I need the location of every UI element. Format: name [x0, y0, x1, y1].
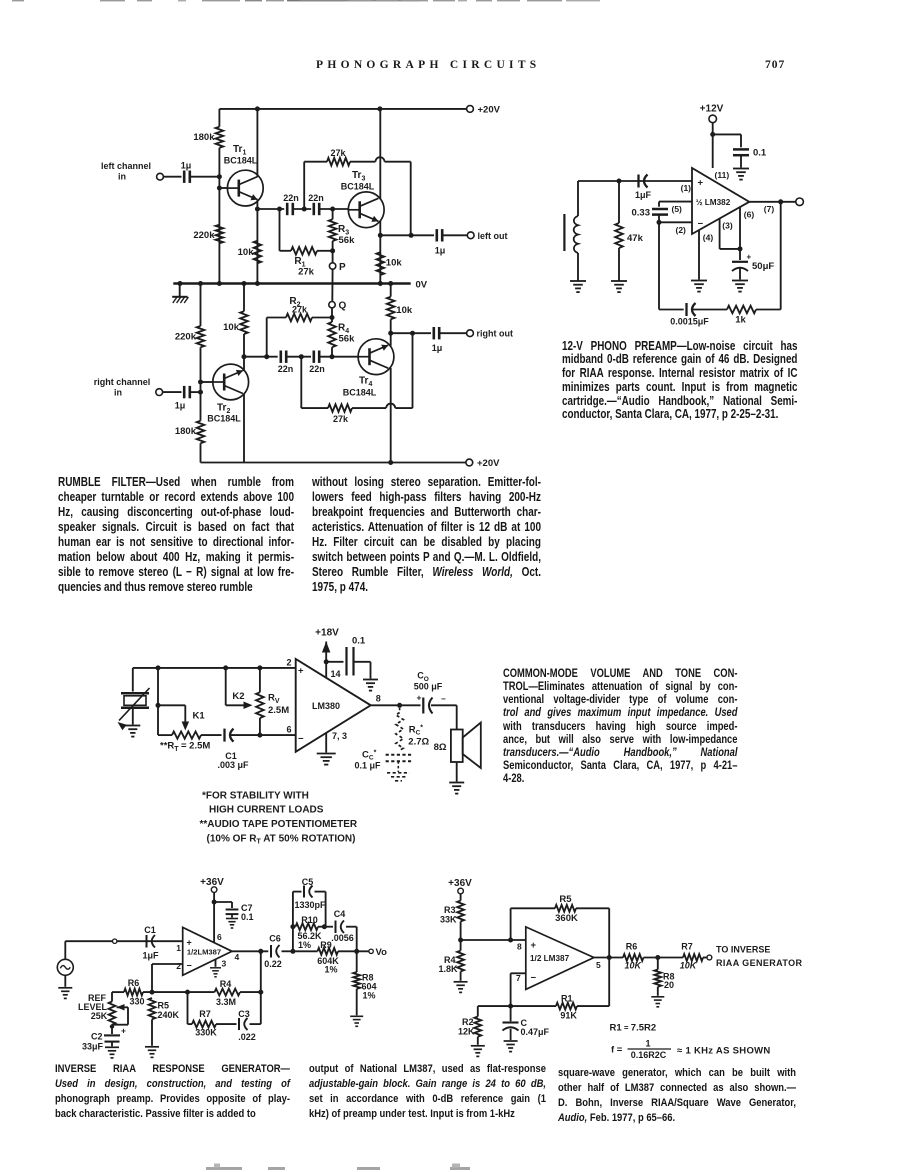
- svg-text:+: +: [417, 693, 422, 703]
- svg-text:91K: 91K: [560, 1011, 577, 1021]
- svg-text:(5): (5): [672, 204, 683, 214]
- svg-text:(11): (11): [715, 170, 730, 180]
- svg-text:50μF: 50μF: [752, 261, 774, 272]
- svg-text:−: −: [698, 218, 704, 229]
- svg-text:+36V: +36V: [200, 877, 224, 888]
- svg-text:K1: K1: [193, 711, 206, 722]
- svg-text:−: −: [298, 734, 304, 745]
- svg-text:1%: 1%: [324, 965, 337, 975]
- svg-text:C1: C1: [144, 925, 156, 935]
- svg-text:8Ω: 8Ω: [434, 742, 447, 753]
- svg-text:C6: C6: [269, 934, 281, 944]
- svg-text:C4: C4: [334, 909, 346, 919]
- svg-text:56k: 56k: [339, 235, 356, 246]
- svg-text:22n: 22n: [278, 364, 294, 374]
- svg-text:R4: R4: [220, 979, 232, 989]
- svg-text:+: +: [298, 666, 304, 677]
- svg-text:K2: K2: [232, 691, 244, 702]
- svg-text:10k: 10k: [386, 258, 403, 269]
- svg-text:7: 7: [516, 973, 521, 983]
- svg-text:R1: R1: [561, 993, 573, 1003]
- svg-text:0.1 μF: 0.1 μF: [354, 761, 381, 771]
- svg-text:180k: 180k: [193, 132, 215, 143]
- svg-text:.0056: .0056: [331, 933, 354, 943]
- svg-text:P: P: [339, 262, 346, 273]
- svg-text:8: 8: [517, 941, 522, 951]
- svg-text:10k: 10k: [396, 305, 413, 316]
- svg-text:(6): (6): [744, 210, 755, 220]
- svg-text:6: 6: [217, 932, 222, 942]
- svg-text:2.5M: 2.5M: [268, 705, 289, 716]
- svg-text:+: +: [531, 940, 537, 951]
- svg-text:right channel: right channel: [94, 377, 151, 387]
- svg-text:8: 8: [376, 694, 381, 704]
- svg-text:+: +: [747, 253, 752, 262]
- svg-text:4: 4: [235, 952, 240, 962]
- svg-text:(1): (1): [681, 183, 692, 193]
- svg-text:RIAA GENERATOR: RIAA GENERATOR: [716, 958, 803, 968]
- svg-text:1μ: 1μ: [175, 401, 186, 411]
- svg-text:≈ 1 KHz AS SHOWN: ≈ 1 KHz AS SHOWN: [677, 1046, 771, 1057]
- svg-text:22n: 22n: [308, 193, 324, 203]
- svg-text:HIGH CURRENT LOADS: HIGH CURRENT LOADS: [209, 805, 324, 816]
- svg-text:27k: 27k: [333, 414, 349, 424]
- svg-text:220k: 220k: [175, 332, 197, 343]
- svg-text:0.33: 0.33: [632, 208, 651, 219]
- svg-text:20: 20: [664, 980, 674, 990]
- svg-text:Tr4: Tr4: [359, 376, 372, 389]
- svg-text:R6: R6: [128, 978, 140, 988]
- svg-text:Vo: Vo: [376, 947, 388, 958]
- svg-text:0.1: 0.1: [352, 636, 366, 647]
- svg-text:C5: C5: [302, 877, 314, 887]
- svg-text:330: 330: [129, 997, 144, 1007]
- svg-text:0.47μF: 0.47μF: [521, 1027, 550, 1037]
- svg-text:10K: 10K: [680, 960, 698, 970]
- svg-text:R9: R9: [320, 940, 332, 950]
- svg-text:= 2.5M: = 2.5M: [181, 741, 210, 752]
- svg-text:22n: 22n: [309, 364, 325, 374]
- svg-text:240K: 240K: [158, 1010, 180, 1020]
- svg-text:Q: Q: [339, 301, 347, 312]
- svg-text:left channel: left channel: [101, 161, 151, 171]
- svg-text:in: in: [118, 172, 126, 182]
- svg-text:−: −: [531, 973, 537, 984]
- svg-text:BC184L: BC184L: [343, 388, 377, 398]
- svg-text:47k: 47k: [627, 233, 644, 244]
- svg-text:+20V: +20V: [478, 104, 501, 115]
- svg-text:33K: 33K: [440, 914, 457, 924]
- svg-text:25K: 25K: [91, 1011, 108, 1021]
- svg-text:0.16R2C: 0.16R2C: [631, 1050, 667, 1060]
- svg-text:R1 = 7.5R2: R1 = 7.5R2: [610, 1023, 657, 1034]
- svg-text:LM380: LM380: [312, 701, 340, 711]
- svg-text:7, 3: 7, 3: [332, 731, 347, 741]
- svg-text:0V: 0V: [416, 279, 428, 290]
- svg-text:10k: 10k: [223, 322, 240, 333]
- svg-text:33μF: 33μF: [82, 1042, 104, 1052]
- svg-text:220k: 220k: [193, 230, 215, 241]
- svg-text:27k: 27k: [298, 267, 315, 278]
- svg-text:R5: R5: [158, 1001, 170, 1011]
- svg-text:C2: C2: [91, 1032, 103, 1042]
- svg-text:BC184L: BC184L: [224, 156, 258, 166]
- svg-text:(7): (7): [764, 204, 775, 214]
- svg-text:(3): (3): [722, 221, 733, 231]
- svg-text:TO INVERSE: TO INVERSE: [716, 944, 770, 954]
- svg-text:3.3M: 3.3M: [216, 997, 236, 1007]
- svg-text:BC184L: BC184L: [207, 414, 241, 424]
- svg-text:500 μF: 500 μF: [414, 682, 443, 692]
- svg-text:**RT: **RT: [160, 741, 179, 754]
- svg-text:1μF: 1μF: [635, 190, 652, 200]
- svg-text:1%: 1%: [363, 991, 376, 1001]
- svg-text:56k: 56k: [339, 334, 356, 345]
- svg-text:1: 1: [176, 943, 181, 953]
- svg-text:+20V: +20V: [477, 458, 500, 469]
- svg-text:1k: 1k: [735, 315, 746, 326]
- svg-text:330K: 330K: [195, 1028, 217, 1038]
- svg-text:10k: 10k: [238, 247, 255, 258]
- svg-text:C3: C3: [238, 1009, 250, 1019]
- svg-text:1%: 1%: [298, 940, 311, 950]
- svg-text:2: 2: [176, 961, 181, 971]
- svg-text:right out: right out: [477, 329, 514, 339]
- svg-text:6: 6: [286, 725, 291, 735]
- svg-text:BC184L: BC184L: [341, 182, 375, 192]
- svg-text:22n: 22n: [283, 193, 299, 203]
- svg-text:27k: 27k: [330, 148, 346, 158]
- svg-text:0.1: 0.1: [753, 148, 767, 159]
- svg-text:in: in: [114, 388, 122, 398]
- svg-text:0.0015μF: 0.0015μF: [670, 317, 709, 327]
- svg-text:left out: left out: [478, 231, 508, 241]
- svg-text:360K: 360K: [555, 913, 578, 924]
- svg-text:2.7Ω: 2.7Ω: [408, 737, 429, 748]
- svg-text:(2): (2): [676, 225, 687, 235]
- svg-text:(10% OF RT AT 50% ROTATION): (10% OF RT AT 50% ROTATION): [207, 834, 356, 846]
- svg-text:14: 14: [331, 669, 341, 679]
- svg-text:0.22: 0.22: [264, 959, 282, 969]
- svg-text:3: 3: [222, 958, 227, 968]
- svg-text:1330pF: 1330pF: [294, 900, 326, 910]
- svg-text:f =: f =: [611, 1045, 623, 1056]
- svg-text:RV: RV: [268, 693, 280, 706]
- svg-text:0.1: 0.1: [241, 912, 254, 922]
- svg-text:(4): (4): [703, 233, 714, 243]
- svg-text:1/2 LM387: 1/2 LM387: [530, 954, 570, 963]
- svg-text:180k: 180k: [175, 426, 197, 437]
- svg-text:.022: .022: [238, 1032, 256, 1042]
- svg-text:1.8K: 1.8K: [438, 964, 458, 974]
- svg-text:1μ: 1μ: [181, 161, 192, 171]
- svg-text:1μ: 1μ: [435, 246, 446, 256]
- svg-text:.003 μF: .003 μF: [217, 760, 249, 770]
- svg-text:*FOR STABILITY WITH: *FOR STABILITY WITH: [202, 791, 309, 802]
- svg-text:27k: 27k: [292, 304, 308, 314]
- svg-text:10K: 10K: [625, 960, 643, 970]
- svg-text:1μF: 1μF: [142, 951, 159, 961]
- svg-text:+: +: [698, 177, 704, 188]
- svg-text:R5: R5: [559, 894, 572, 905]
- svg-text:5: 5: [596, 960, 601, 970]
- svg-text:1μ: 1μ: [432, 343, 443, 353]
- svg-text:R6: R6: [626, 942, 638, 952]
- svg-text:½ LM382: ½ LM382: [696, 198, 731, 207]
- svg-text:R7: R7: [681, 942, 693, 952]
- svg-text:R10: R10: [301, 915, 318, 925]
- svg-text:−: −: [441, 695, 446, 704]
- svg-text:+12V: +12V: [700, 104, 724, 115]
- svg-text:+18V: +18V: [315, 628, 339, 639]
- svg-text:12K: 12K: [458, 1026, 475, 1036]
- svg-text:R7: R7: [199, 1009, 211, 1019]
- svg-text:2: 2: [286, 658, 291, 668]
- svg-text:1: 1: [645, 1039, 650, 1049]
- svg-text:+36V: +36V: [448, 878, 472, 889]
- svg-text:+: +: [121, 1026, 126, 1036]
- svg-text:+: +: [187, 937, 192, 947]
- svg-text:1/2LM387: 1/2LM387: [187, 948, 221, 957]
- svg-text:RC*: RC*: [409, 725, 424, 737]
- svg-text:−: −: [187, 960, 192, 970]
- svg-text:**AUDIO TAPE POTENTIOMETER: **AUDIO TAPE POTENTIOMETER: [200, 819, 358, 830]
